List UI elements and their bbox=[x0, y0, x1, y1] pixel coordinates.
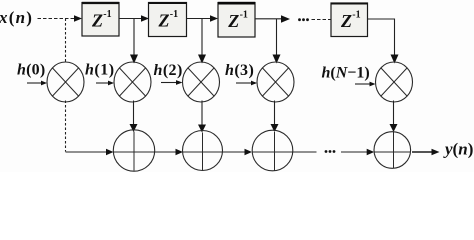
wire Z3 out bbox=[255, 18, 282, 20]
arrow into A2 left bbox=[176, 149, 184, 156]
arrow into M3 top bbox=[198, 55, 206, 64]
arrow into A2 top bbox=[198, 125, 206, 133]
wire Z4 out to corner bbox=[368, 19, 395, 55]
adder A3 bbox=[252, 130, 293, 171]
svg-text:-1: -1 bbox=[352, 10, 360, 21]
svg-text:h(2): h(2) bbox=[154, 62, 183, 79]
arrow h(N-1) into M5 bbox=[355, 83, 370, 85]
wire A3 out bbox=[293, 151, 317, 153]
svg-text:Z: Z bbox=[340, 11, 352, 31]
multiplier M5 bbox=[376, 62, 413, 102]
wire M2 to A1 bbox=[133, 101, 135, 125]
arrow h(1) into M2 bbox=[96, 82, 109, 84]
arrow into A3 top bbox=[271, 124, 279, 132]
ellipsis top row bbox=[298, 18, 301, 21]
arrow h(3) into M4 bbox=[236, 82, 252, 84]
wire drop to M2 bbox=[133, 19, 135, 56]
delay block Z3 bbox=[218, 3, 255, 38]
svg-text:h(3): h(3) bbox=[225, 62, 254, 79]
wire dashed into Z4 bbox=[312, 19, 332, 21]
multiplier M1 bbox=[47, 62, 84, 102]
adder A4 bbox=[374, 132, 411, 169]
arrow output bbox=[432, 149, 440, 156]
multiplier M4 bbox=[257, 62, 294, 102]
svg-text:Z: Z bbox=[91, 10, 103, 30]
delay block Z1 bbox=[82, 3, 119, 37]
svg-text:x(n): x(n) bbox=[0, 8, 33, 27]
arrow into A1 top bbox=[130, 124, 138, 132]
multiplier M3 bbox=[183, 62, 220, 102]
arrow into A1 left bbox=[106, 149, 114, 156]
adder A1 bbox=[113, 130, 154, 171]
wire drop to M1 dotted bbox=[65, 19, 67, 64]
arrow mid ellipsis top row bbox=[281, 15, 290, 23]
arrow into A3 left bbox=[245, 149, 253, 156]
adder A2 bbox=[183, 131, 223, 171]
wire into A4 bbox=[341, 151, 367, 153]
arrow into A4 left bbox=[367, 149, 375, 156]
svg-text:h(1): h(1) bbox=[85, 62, 115, 79]
ellipsis bottom row bbox=[325, 150, 328, 153]
wire M4 to A3 bbox=[274, 101, 276, 125]
svg-text:h(0): h(0) bbox=[17, 62, 45, 79]
arrow into M5 top bbox=[391, 55, 399, 64]
svg-text:Z: Z bbox=[227, 11, 239, 31]
arrow into Z2 bbox=[141, 15, 149, 22]
arrow into Z3 bbox=[210, 15, 218, 22]
svg-text:-1: -1 bbox=[103, 9, 111, 20]
arrow h(2) into M3 bbox=[161, 82, 177, 84]
wire Z1 to Z2 bbox=[119, 18, 142, 20]
wire Z2 to Z3 bbox=[187, 18, 211, 20]
wire A1 to A2 bbox=[155, 151, 177, 153]
arrow into Z1 bbox=[74, 15, 82, 22]
arrow into M4 top bbox=[273, 55, 281, 64]
wire M1 down dotted bbox=[65, 101, 67, 152]
wire drop to M4 bbox=[276, 19, 278, 55]
arrow h(0) into M1 bbox=[27, 82, 42, 84]
svg-text:y(n): y(n) bbox=[443, 140, 473, 159]
wire A2 to A3 bbox=[223, 151, 246, 153]
delay block Z4 bbox=[331, 3, 368, 37]
delay block Z2 bbox=[149, 3, 187, 37]
wire M1 corner to A1 bbox=[66, 151, 107, 153]
arrow into A4 top bbox=[390, 124, 398, 132]
wire M3 to A2 bbox=[201, 101, 203, 126]
multiplier M2 bbox=[114, 62, 151, 102]
svg-text:-1: -1 bbox=[170, 9, 178, 20]
svg-text:h(N−1): h(N−1) bbox=[322, 65, 370, 82]
arrow into M2 top bbox=[130, 55, 138, 64]
wire output bbox=[412, 151, 432, 153]
svg-text:Z: Z bbox=[158, 10, 170, 30]
svg-text:-1: -1 bbox=[240, 10, 248, 21]
wire M5 to A4 bbox=[393, 101, 395, 125]
wire drop to M3 bbox=[201, 19, 203, 56]
wire input dashed bbox=[38, 18, 75, 20]
